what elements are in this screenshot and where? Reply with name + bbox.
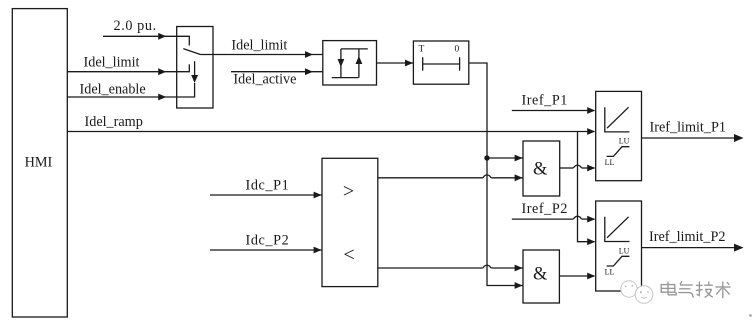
arrowhead Iref_P1 at limiter U3 <box>587 107 595 114</box>
block comparator U5 <box>322 158 378 286</box>
wire Iref_limit_P1 output <box>642 137 743 139</box>
svg-text:&: & <box>533 160 548 180</box>
svg-text:2.0 pu.: 2.0 pu. <box>114 18 157 34</box>
svg-text:LU: LU <box>619 137 630 146</box>
arrowhead hysteresis up <box>356 56 363 64</box>
arrowhead timer branch at AND1 <box>515 155 523 162</box>
svg-text:LL: LL <box>605 158 615 167</box>
svg-text:Idel_limit: Idel_limit <box>84 55 140 71</box>
arrowhead AND2 out at limiter U4 <box>587 273 595 280</box>
arrowhead switch output at hysteresis <box>305 51 313 58</box>
block timer U2 <box>413 41 468 84</box>
wire Iref_P1 into limiter U3 <box>512 110 595 112</box>
node junction dot <box>484 155 489 160</box>
arrowhead Idel_ramp at limiter U3 <box>587 128 595 135</box>
arrowhead lt at AND2 <box>515 265 523 272</box>
hysteresis symbol <box>332 49 368 78</box>
block hysteresis U1 <box>323 41 377 85</box>
wire switch output Idel_limit to hysteresis <box>200 54 322 56</box>
svg-text:Iref_P1: Iref_P1 <box>522 92 568 108</box>
limiter U3 ramp symbol <box>605 107 630 132</box>
svg-text:HMI: HMI <box>25 155 53 171</box>
wire Idel_ramp HMI to limiter U3 <box>67 131 594 133</box>
svg-text:LL: LL <box>605 268 615 277</box>
wire Idel_limit HMI to switch <box>67 64 189 71</box>
watermark text ji <box>696 282 713 298</box>
wire Idel_ramp branch to limiter U4 <box>578 132 595 242</box>
svg-text:<: < <box>343 244 354 266</box>
watermark logo circles <box>621 281 653 304</box>
svg-text:>: > <box>343 180 354 202</box>
switch lever <box>183 49 200 55</box>
watermark text dian <box>661 282 676 295</box>
svg-text:Idel_limit: Idel_limit <box>231 37 287 53</box>
limiter U4 saturation symbol <box>607 256 630 266</box>
wire Idel_active into hysteresis <box>231 71 323 73</box>
wire comparator lt output to AND2 with hop <box>378 267 483 269</box>
arrowhead Iref_limit_P1 <box>734 134 744 142</box>
block limiter U4 <box>596 201 642 291</box>
arrowhead 2.0pu <box>158 33 166 40</box>
arrowhead into timer <box>405 60 413 67</box>
svg-text:LU: LU <box>619 246 630 255</box>
arrowhead AND1 out at limiter U3 <box>587 165 595 172</box>
svg-text:T: T <box>419 45 425 55</box>
arrowhead gt at AND1 <box>515 174 523 181</box>
arrowhead Iref_limit_P2 <box>734 244 744 252</box>
svg-text:Idc_P2: Idc_P2 <box>246 233 290 249</box>
wire hysteresis to timer <box>377 62 414 64</box>
svg-text:0: 0 <box>455 45 460 55</box>
limiter U4 ramp symbol <box>605 217 630 242</box>
limiter U3 saturation symbol <box>607 147 630 157</box>
arrowhead Idel_limit <box>158 68 166 75</box>
wire comparator gt output to AND1 with hop <box>378 177 483 179</box>
svg-text:Iref_P2: Iref_P2 <box>522 201 568 217</box>
wire 2.0pu constant into switch <box>103 36 189 45</box>
arrowhead Idc_P1 <box>314 192 322 199</box>
svg-text:&: & <box>533 265 548 285</box>
svg-text:Idc_P1: Idc_P1 <box>246 178 290 194</box>
svg-text:Idel_active: Idel_active <box>233 71 296 87</box>
arrowhead Idel_active at hysteresis <box>305 68 313 75</box>
arrowhead Idc_P2 <box>314 247 322 254</box>
block HMI <box>12 9 67 317</box>
wire timer output down bus <box>469 63 523 286</box>
wire AND2 output to limiter U4 <box>559 275 594 277</box>
arrowhead timer bus at AND2 <box>515 282 523 289</box>
watermark text shu <box>715 282 730 299</box>
block AND1 gate <box>523 141 560 196</box>
wire Iref_P2 into limiter U4 with hop <box>512 218 574 220</box>
watermark text qi <box>678 281 693 297</box>
timer symbol <box>423 57 460 70</box>
svg-text:Iref_limit_P1: Iref_limit_P1 <box>650 119 726 135</box>
arrowhead Idel_enable <box>158 94 166 101</box>
arrowhead switch control down <box>191 75 198 83</box>
block AND2 gate <box>523 250 559 303</box>
svg-text:Idel_enable: Idel_enable <box>80 81 146 97</box>
arrowhead Iref_P2 at limiter U4 <box>587 216 595 223</box>
wire timer branch to AND1 <box>487 157 523 159</box>
wire AND1 output to limiter U3 with hop <box>560 167 574 169</box>
switch block S1 <box>177 27 213 109</box>
svg-text:Iref_limit_P2: Iref_limit_P2 <box>649 229 725 245</box>
arrowhead Idel_ramp at limiter U4 <box>587 238 595 245</box>
wire Idel_enable HMI to switch control <box>67 83 194 97</box>
wire Idc_P1 into comparator <box>210 194 322 196</box>
wire Idc_P2 into comparator <box>210 249 322 251</box>
svg-text:Idel_ramp: Idel_ramp <box>85 114 143 130</box>
switch control arrow line <box>194 61 196 75</box>
wire Iref_limit_P2 output <box>642 247 743 249</box>
arrowhead hysteresis down <box>338 59 345 67</box>
block limiter U3 <box>596 91 642 180</box>
watermark dot bottom right <box>749 314 752 317</box>
